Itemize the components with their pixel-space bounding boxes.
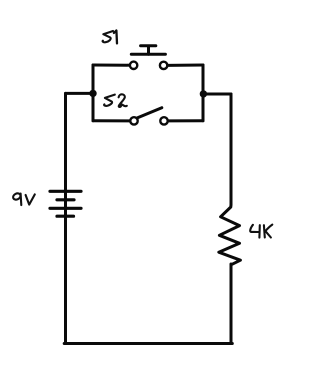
battery B1 plate short [57, 198, 74, 201]
battery B1 plate long bottom [50, 207, 81, 210]
label 9V digit 9 bowl [12, 192, 22, 201]
switch S1 pushbutton left terminal [130, 62, 137, 69]
switch S2 right terminal [160, 117, 167, 124]
wire right vertical upper (above resistor) [230, 94, 233, 205]
wire S1 top-left segment [93, 64, 130, 67]
wire S1 top-right segment [168, 64, 203, 67]
wire bottom [64, 342, 232, 345]
wire S2 bottom-right segment [168, 119, 203, 122]
battery B1 plate long top [50, 190, 81, 193]
wire switch-loop right vertical [202, 65, 205, 121]
label 9V digit 9 stem [20, 194, 23, 206]
switch S1 pushbutton right terminal [160, 62, 167, 69]
switch S1 pushbutton actuator bar [131, 53, 165, 56]
label 4K letter K stroke 2 [265, 225, 272, 232]
wire right stub to switch loop [203, 93, 231, 96]
resistor R1 zigzag [219, 205, 241, 265]
switch S1 pushbutton top cap [141, 44, 156, 47]
label 9V letter V [26, 194, 35, 204]
label S1 letter S [103, 31, 113, 42]
node junction right [200, 90, 207, 97]
label 4K letter K stroke 1 [263, 225, 266, 237]
label 4K letter K stroke 3 [266, 231, 271, 237]
wire left stub from battery branch to switch loop [66, 92, 94, 95]
switch S1 pushbutton stem [147, 46, 150, 54]
node junction left [89, 90, 96, 97]
label S2 digit 2 [119, 94, 127, 107]
label 4K digit 4 stroke 2 [258, 225, 260, 237]
wire right vertical lower (below resistor) [230, 264, 233, 344]
label 4K digit 4 stroke 1 [250, 225, 258, 232]
wire switch-loop left vertical [92, 65, 95, 121]
wire S2 bottom-left segment [93, 119, 130, 122]
label S2 letter S [104, 95, 115, 106]
switch S2 left terminal [130, 117, 137, 124]
wire left vertical (battery branch) [64, 93, 67, 343]
switch S2 lever [137, 108, 162, 118]
label S1 digit 1 [114, 31, 117, 44]
battery B1 plate short bottom [57, 215, 74, 218]
